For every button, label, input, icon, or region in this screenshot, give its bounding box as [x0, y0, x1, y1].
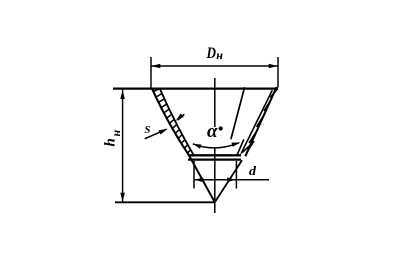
funnel right outer wall	[245, 87, 276, 156]
svg-text:d: d	[249, 163, 257, 178]
dimension h_n line with arrows	[122, 90, 124, 202]
right cone line to apex	[215, 160, 242, 202]
vertical centerline	[214, 78, 216, 127]
alpha angle arc with arrows	[193, 143, 239, 148]
funnel right inner wall	[241, 90, 272, 154]
svg-text:h: h	[103, 138, 119, 146]
apex horizontal extension line	[115, 201, 215, 203]
svg-text:н: н	[216, 48, 223, 62]
left cone line to apex	[189, 155, 215, 202]
funnel right inner cone line	[231, 87, 245, 139]
funnel top rim line	[113, 87, 278, 89]
funnel left inner wall	[160, 89, 194, 155]
dimension d extension lines	[193, 161, 195, 189]
svg-text:D: D	[206, 45, 217, 62]
dimension D_n line with arrows	[151, 65, 278, 67]
dimension D_n extension lines	[150, 57, 152, 88]
outlet rim top line	[188, 154, 241, 156]
funnel left outer wall	[152, 89, 189, 156]
svg-text:S: S	[145, 125, 151, 136]
outlet rim bottom line	[188, 158, 241, 160]
dimension d line with arrows	[194, 179, 269, 181]
left wall hatching	[153, 89, 190, 154]
right wall hatch strokes	[237, 89, 278, 156]
svg-text:н: н	[109, 130, 123, 137]
S leader arrows across wall	[145, 129, 167, 139]
svg-text:α: α	[207, 121, 218, 142]
